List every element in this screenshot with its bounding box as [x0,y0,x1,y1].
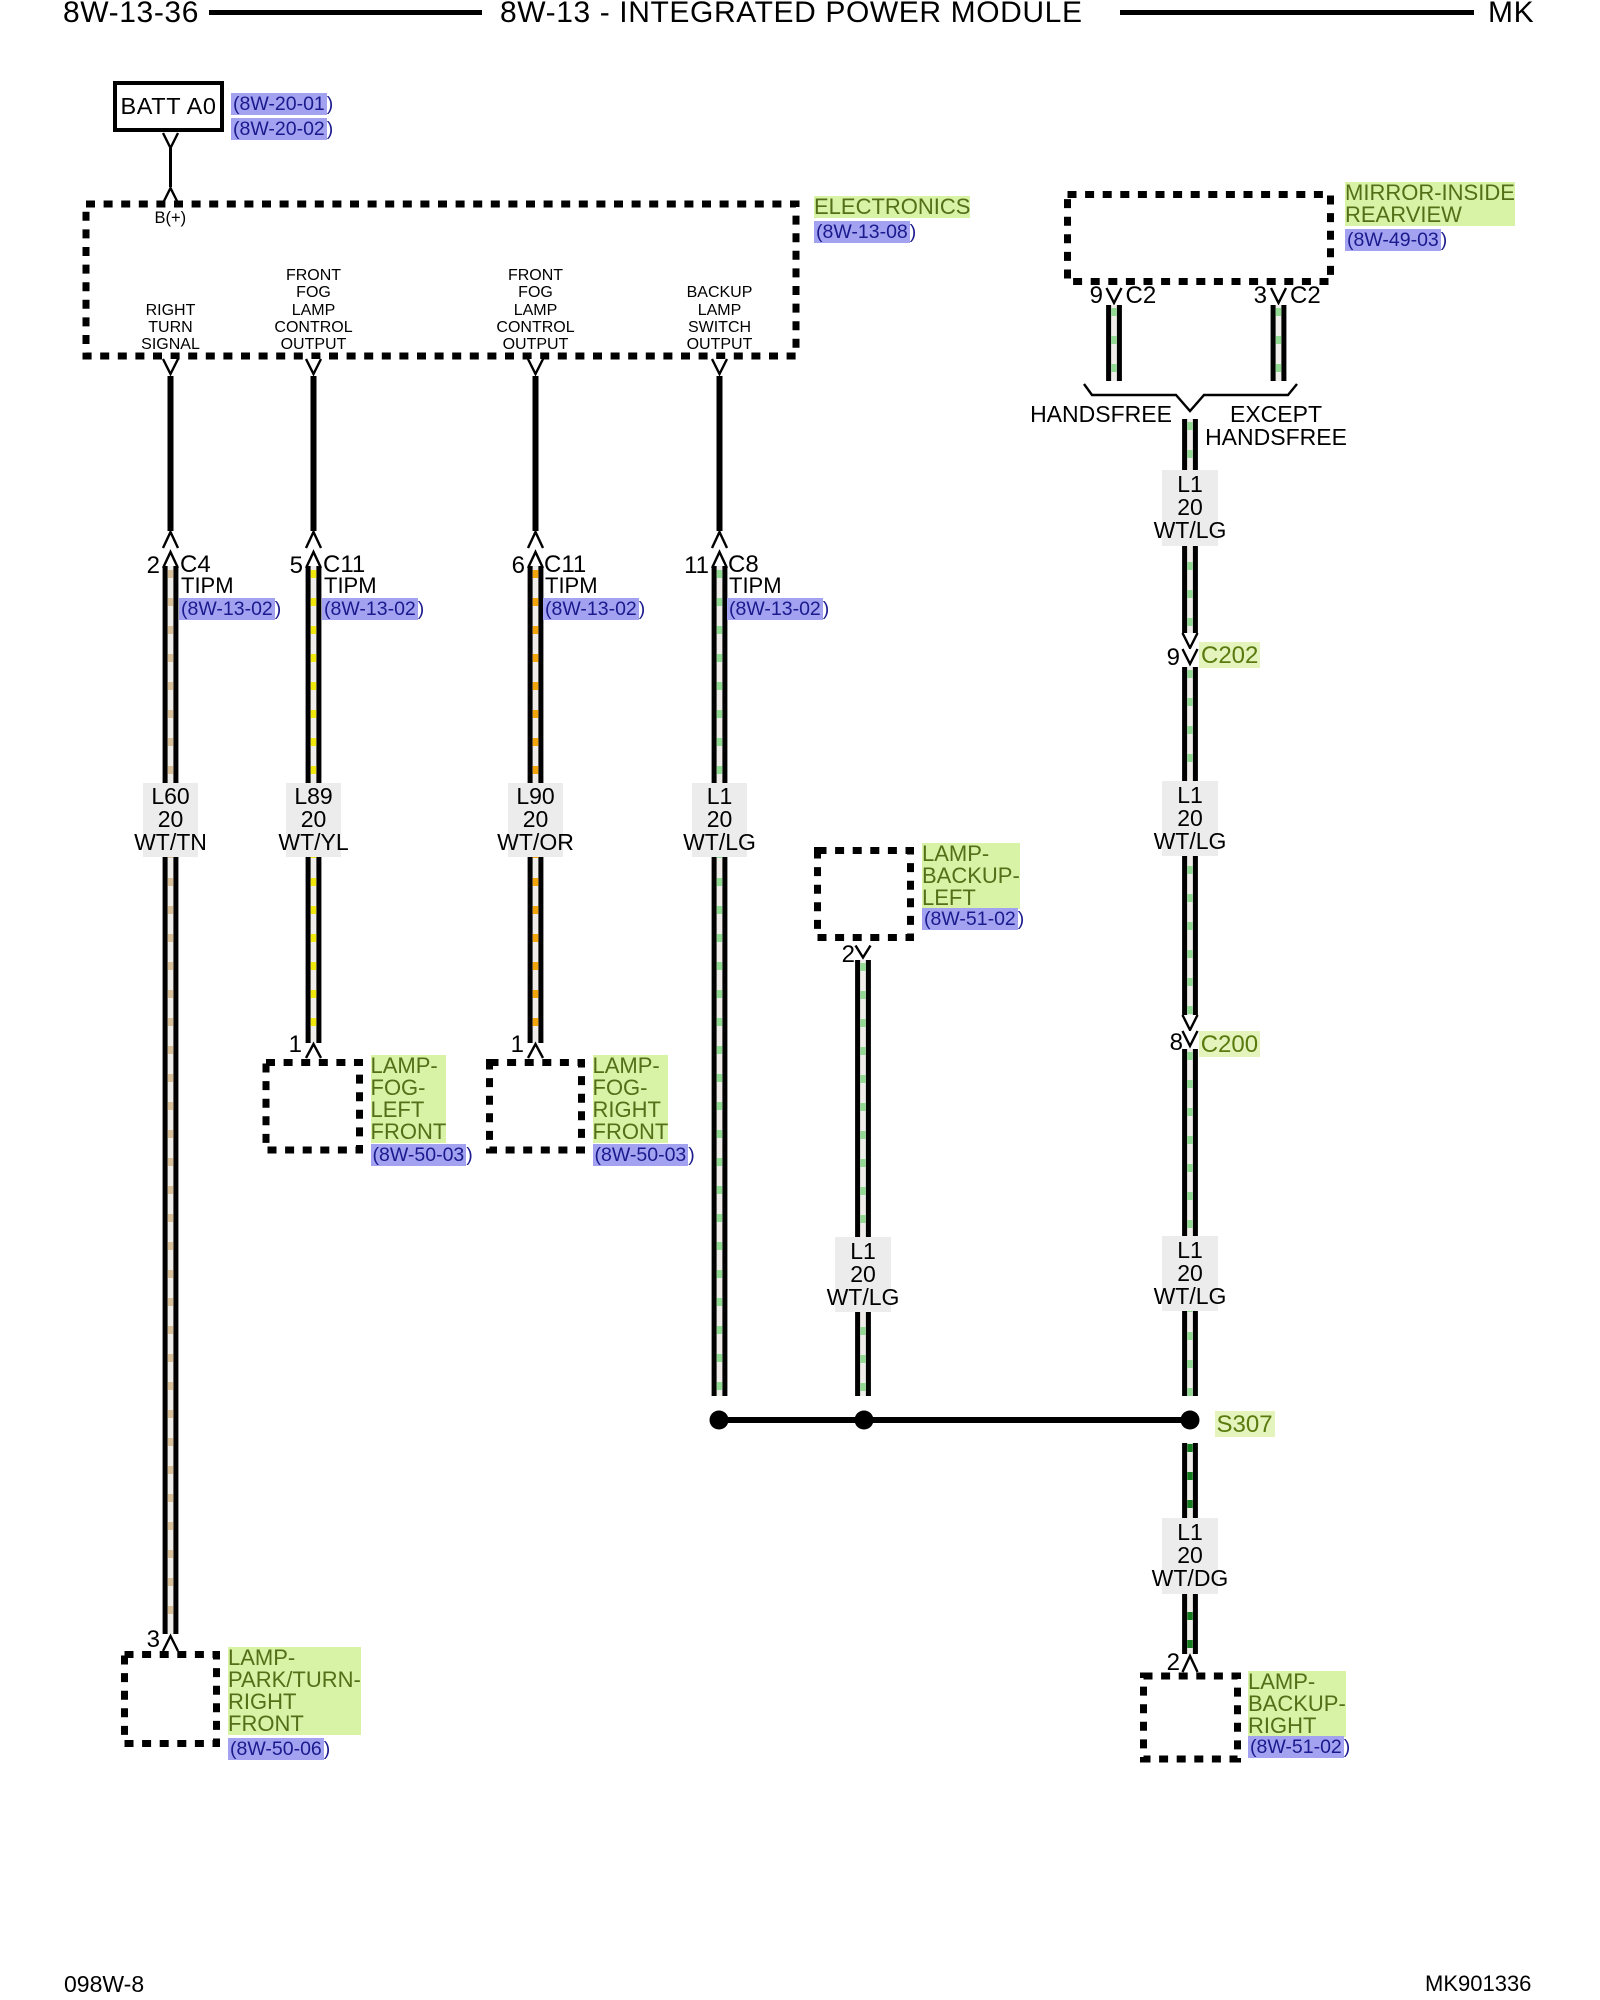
pin chevron FRONT FOG LAMP CONTROL OUTPUT left [306,359,321,374]
pin 3 label (connector C2 right) [1254,284,1267,308]
wire TIPM C11 pin 6 output (black) [533,376,539,531]
TIPM reference 8W-13-08 [814,220,916,244]
brace handsfree / except handsfree [1084,384,1297,411]
port label BACKUP LAMP SWITCH OUTPUT [687,284,753,353]
connector label C200 [1199,1031,1260,1057]
header rule right [1120,10,1474,15]
fog-right component label LAMP-FOG-RIGHT FRONT [593,1055,669,1143]
wire label L1 20 WT/LG (C202-C200) [1162,781,1218,856]
LAMP-PARK/TURN-RIGHT FRONT box (dashed) [125,1655,217,1744]
wire TIPM C8 pin 11 output (black) [717,376,723,531]
wire label L90 20 WT/OR [508,783,564,857]
footer sheet number 098W-8 [64,1973,144,1996]
wire L1 20 WT/LG (C202 to C200) [1182,667,1198,1015]
wire L89 20 WT/YL [306,566,322,1043]
park/turn reference 8W-50-06 [228,1737,330,1761]
wire L1 20 WT/LG (C8 to S307) [712,566,728,1396]
wire label L89 20 WT/YL [286,783,342,857]
connector label C11 (pin6) [544,553,586,577]
connector label C11 (pin5) [323,553,365,577]
connector pin 1 chevron at fog-left [306,1044,321,1058]
wire label L1 20 WT/LG (right low) [1162,1236,1218,1311]
node B(+) [155,210,187,227]
wire label L1 20 WT/DG [1162,1518,1218,1594]
pin 1 label (fog-left) [289,1033,302,1057]
connector label C8 [728,553,759,577]
in-line connector C4 chevrons [163,532,178,568]
connector pin 3 chevron at lamp park/turn [163,1636,178,1651]
pin 6 label (connector C11) [512,554,525,578]
in-line connector C200 chevrons [1183,1015,1198,1046]
LAMP-BACKUP-RIGHT box (dashed) [1144,1676,1238,1759]
backup-left component label LAMP-BACKUP-LEFT [922,843,1020,909]
pin 2 label (backup-right) [1167,1651,1180,1675]
TIPM component label ELECTRONICS [814,196,970,218]
wire BATT A0 to ELECTRONICS B(+) [163,133,178,203]
connector C2 pin 9 chevron [1107,288,1122,303]
wire TIPM C4 pin 2 output (black) [168,376,174,531]
fog-right reference 8W-50-03 [593,1143,695,1167]
wire L1 20 WT/LG (brace to C202) [1182,419,1198,633]
in-line connector C202 chevrons [1183,633,1198,664]
page code MK [1488,0,1534,28]
in-line connector C8 chevrons [712,532,727,568]
page title 8W-13 - INTEGRATED POWER MODULE [500,0,1083,28]
battery label BATT A0 [120,95,216,119]
MIRROR-INSIDE REARVIEW box (dashed) [1068,195,1331,282]
TIPM reference 8W-13-02 (C4) [179,597,281,621]
footer drawing number MK901336 [1425,1973,1531,1995]
pin 2 label (backup-left) [842,943,855,967]
park/turn component label LAMP-PARK/TURN-RIGHT FRONT [228,1647,361,1735]
wire L60 20 WT/TN [163,566,179,1634]
pin chevron RIGHT TURN SIGNAL output [163,359,178,374]
pin 8 label (connector C200) [1170,1031,1183,1055]
in-line connector C11 chevrons (pin6) [528,532,543,568]
pin 9 label (connector C2 left) [1090,284,1103,308]
splice label S307 [1215,1411,1275,1437]
LAMP-FOG-LEFT FRONT box (dashed) [266,1063,360,1151]
in-line connector C11 chevrons (pin5) [306,532,321,568]
port label RIGHT TURN SIGNAL [141,302,200,354]
mirror component label MIRROR-INSIDE REARVIEW [1345,182,1515,226]
connector label C202 [1199,642,1260,668]
port label FRONT FOG LAMP CONTROL OUTPUT (right) [496,267,574,353]
option label HANDSFREE [1030,403,1172,426]
backup-left reference 8W-51-02 [922,907,1024,931]
battery reference 8W-20-02 [231,117,333,141]
mirror reference 8W-49-03 [1345,228,1447,252]
wire mirror pin 3 WT/LG stub [1271,305,1287,381]
backup-right component label LAMP-BACKUP-RIGHT [1248,1671,1346,1737]
wire L90 20 WT/OR [528,566,544,1043]
pin 5 label (connector C11) [290,554,303,578]
pin chevron FRONT FOG LAMP CONTROL OUTPUT right [528,359,543,374]
wire label L1 20 WT/LG (backup-left) [835,1237,891,1312]
component label TIPM (C11 pin5) [324,575,377,597]
splice S307 junction [710,1411,1200,1430]
connector label C2 (left) [1126,284,1157,308]
backup-right reference 8W-51-02 [1248,1735,1350,1759]
connector pin 2 chevron at backup-right [1183,1656,1198,1672]
port label FRONT FOG LAMP CONTROL OUTPUT (left) [274,267,352,353]
wire mirror pin 9 WT/LG stub [1106,305,1122,381]
TIPM reference 8W-13-02 (C11 pin6) [543,597,645,621]
connector pin 1 chevron at fog-right [528,1044,543,1058]
pin 11 label (connector C8) [684,554,709,578]
component label TIPM (C8) [729,575,782,597]
connector pin 2 chevron at backup-left [856,946,871,958]
LAMP-FOG-RIGHT FRONT box (dashed) [490,1063,582,1151]
connector C2 pin 3 chevron [1271,288,1286,303]
wire TIPM C11 pin 5 output (black) [311,376,317,531]
component label TIPM (C11 pin6) [545,575,598,597]
battery BATT A0 box [115,83,222,130]
wire label L1 20 WT/LG (below brace) [1162,470,1218,546]
wire label L60 20 WT/TN [143,783,199,857]
TIPM ELECTRONICS box (dashed) [86,204,796,356]
pin 2 label (connector C4) [147,554,160,578]
TIPM reference 8W-13-02 (C11 pin5) [322,597,424,621]
fog-left reference 8W-50-03 [371,1143,473,1167]
wire backup-left L1 20 WT/LG [855,960,871,1396]
page number 8W-13-36 [63,0,199,28]
option label EXCEPT HANDSFREE [1205,403,1347,450]
connector label C4 [180,553,211,577]
fog-left component label LAMP-FOG-LEFT FRONT [371,1055,447,1143]
wire L1 20 WT/LG (C200 to S307) [1182,1049,1198,1396]
wire L1 20 WT/DG (S307 to backup-right) [1182,1443,1198,1654]
pin chevron BACKUP LAMP SWITCH OUTPUT [712,359,727,374]
TIPM reference 8W-13-02 (C8) [727,597,829,621]
pin 3 label (park/turn) [147,1628,160,1652]
LAMP-BACKUP-LEFT box (dashed) [818,851,911,938]
wire label L1 20 WT/LG (col4) [692,783,748,857]
component label TIPM (C4) [181,575,234,597]
battery reference 8W-20-01 [231,92,333,116]
pin 9 label (connector C202) [1167,646,1180,670]
connector label C2 (right) [1290,284,1321,308]
pin 1 label (fog-right) [511,1033,524,1057]
header rule left [209,10,482,15]
